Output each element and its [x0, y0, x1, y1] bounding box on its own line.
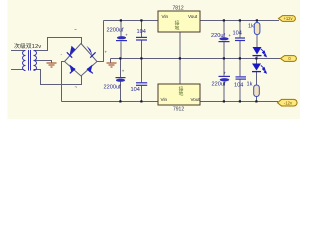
svg-text:2200uf: 2200uf	[104, 85, 122, 91]
svg-text:104: 104	[137, 29, 146, 35]
svg-text:~: ~	[74, 27, 77, 32]
svg-text:220uf: 220uf	[212, 82, 226, 88]
svg-text:7912: 7912	[173, 107, 184, 113]
svg-text:7812: 7812	[173, 6, 184, 12]
svg-text:+: +	[122, 69, 125, 74]
svg-text:104: 104	[131, 87, 140, 93]
svg-text:1k: 1k	[248, 24, 254, 30]
svg-text:地: 地	[175, 25, 180, 32]
svg-text:104: 104	[233, 30, 242, 36]
svg-text:104: 104	[234, 83, 243, 89]
svg-text:1k: 1k	[247, 82, 253, 88]
svg-text:次级双12v: 次级双12v	[14, 42, 41, 50]
svg-text:+12v: +12v	[283, 16, 293, 21]
svg-text:~: ~	[75, 85, 78, 90]
svg-text:220uf: 220uf	[211, 33, 225, 39]
svg-text:+: +	[105, 50, 108, 55]
svg-text:Vin: Vin	[161, 97, 168, 102]
svg-text:Vout: Vout	[191, 97, 201, 102]
svg-text:+: +	[224, 71, 227, 76]
svg-text:Vout: Vout	[188, 14, 198, 19]
svg-text:Vin: Vin	[162, 14, 169, 19]
svg-text:地: 地	[179, 90, 184, 97]
svg-text:-12v: -12v	[284, 101, 293, 106]
svg-text:接: 接	[175, 20, 180, 27]
svg-text:2200uf: 2200uf	[107, 27, 125, 33]
svg-text:+: +	[125, 33, 128, 38]
svg-text:+: +	[228, 33, 231, 38]
